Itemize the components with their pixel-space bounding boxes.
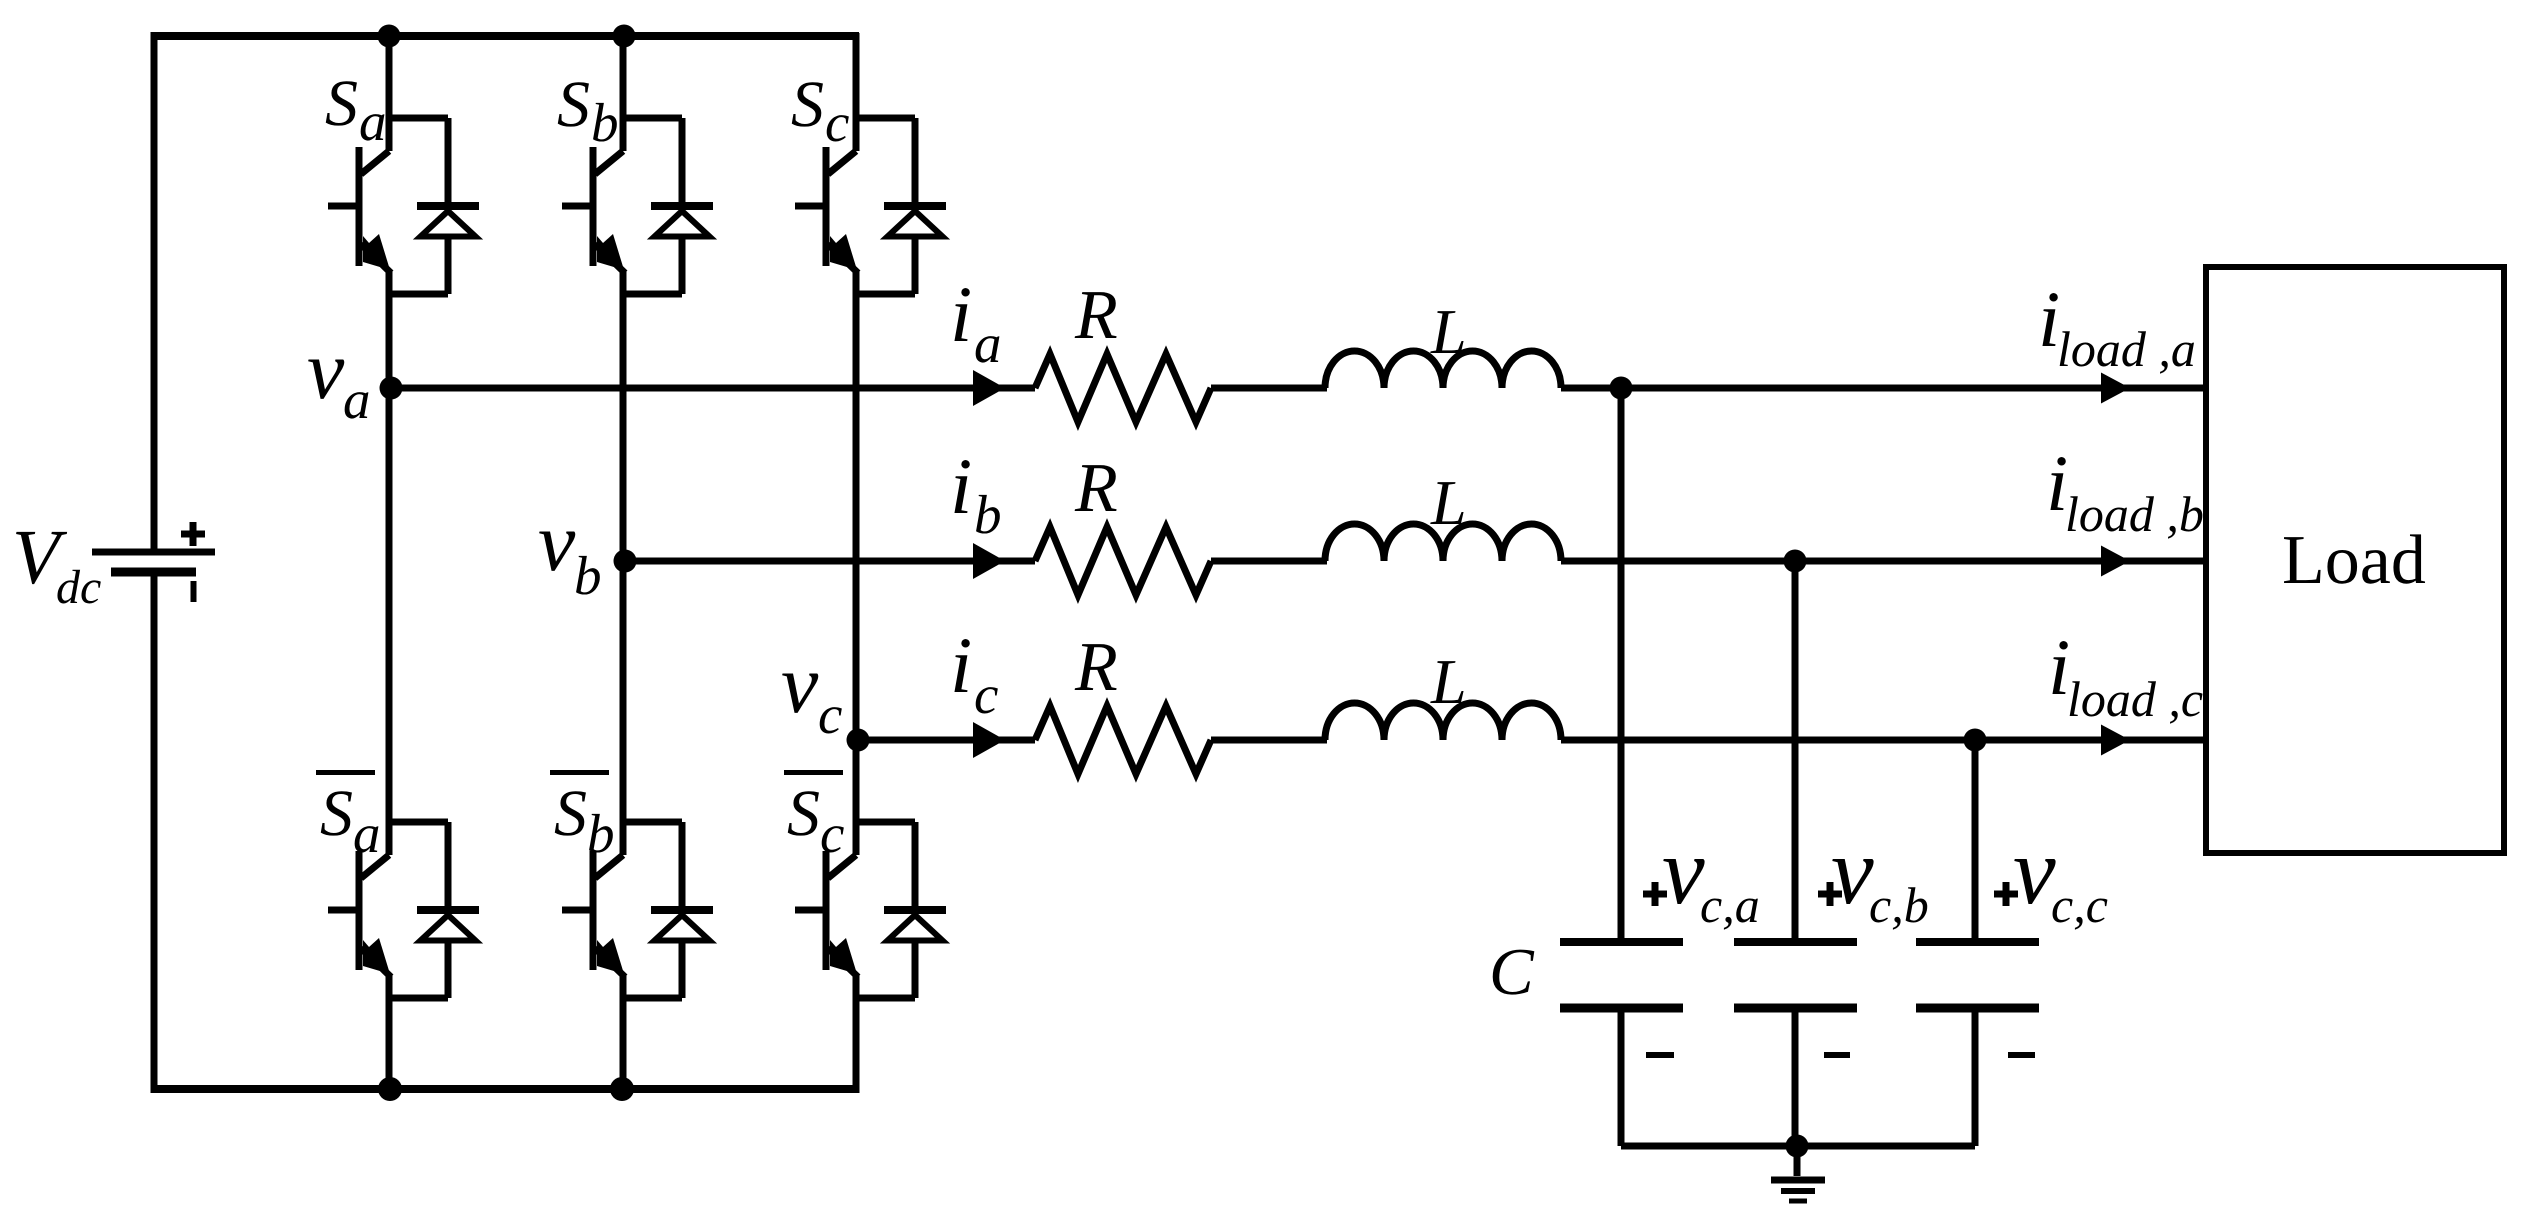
label: capacitor voltage polarity + (phase a) xyxy=(1643,882,1667,906)
wire: R to L (phase a) xyxy=(1211,385,1327,392)
svg-text:c,a: c,a xyxy=(1700,877,1760,933)
svg-text:S: S xyxy=(787,777,820,850)
wire: L to load (phase a) xyxy=(1561,385,2208,392)
inductor L (phase b) xyxy=(1325,524,1561,561)
ground symbol xyxy=(1771,1146,1825,1201)
node: filter tee node phase a xyxy=(1610,377,1633,400)
resistor R (phase b) xyxy=(1035,527,1211,595)
wire: emitter branch of S-bar-c xyxy=(856,995,915,1002)
wire: collector branch of Sb xyxy=(623,115,682,122)
transistor S-bar-c (IGBT) xyxy=(795,851,858,977)
svg-text:v: v xyxy=(781,638,819,731)
arrow: current ic direction xyxy=(973,722,1005,758)
svg-text:R: R xyxy=(1074,277,1118,354)
svg-text:Load: Load xyxy=(2282,522,2426,599)
wire: tee node down to capacitor Ca xyxy=(1618,388,1625,938)
label: switch S-bar-c (complementary) xyxy=(784,770,843,775)
label: switch S-bar-a (complementary) xyxy=(316,770,375,775)
node: vb xyxy=(614,550,637,573)
svg-text:c,c: c,c xyxy=(2051,877,2108,933)
svg-text:a: a xyxy=(974,313,1002,374)
transistor Sc (IGBT) xyxy=(795,147,858,273)
svg-text:R: R xyxy=(1074,629,1118,706)
svg-text:v: v xyxy=(538,496,576,589)
transistor S-bar-b (IGBT) xyxy=(562,851,625,977)
wire: phase c leg, Sc emitter through vc node to lower switch xyxy=(853,271,860,855)
wire: collector branch of S-bar-b xyxy=(623,819,682,826)
wire: positive DC rail (top) xyxy=(151,32,860,40)
wire: phase a leg, Sa emitter through va node to lower switch xyxy=(386,271,393,855)
wire: emitter branch of S-bar-a xyxy=(389,995,448,1002)
wire: collector branch of Sa xyxy=(389,115,448,122)
svg-text:v: v xyxy=(1662,817,1705,924)
arrow: load current i_load,c xyxy=(2101,725,2130,756)
label: capacitor voltage polarity + (phase b) xyxy=(1818,882,1842,906)
svg-text:c,b: c,b xyxy=(1869,877,1929,933)
wire: negative DC rail (bottom) xyxy=(151,1085,860,1093)
svg-text:i: i xyxy=(950,443,972,531)
freewheeling diode of Sa xyxy=(417,118,479,294)
svg-text:v: v xyxy=(1831,817,1874,924)
wire: tee node down to capacitor Cc xyxy=(1972,740,1979,938)
node: top rail / phase a xyxy=(378,25,401,48)
svg-text:load ,a: load ,a xyxy=(2057,321,2196,377)
node: filter tee node phase c xyxy=(1964,729,1987,752)
wire: L to load (phase b) xyxy=(1561,558,2208,565)
battery minus polarity mark xyxy=(191,581,197,602)
node: vc xyxy=(847,729,870,752)
svg-text:b: b xyxy=(587,803,615,864)
wire: left DC rail upper (top rail to battery +) xyxy=(151,32,158,549)
resistor R (phase c) xyxy=(1035,706,1211,774)
svg-text:S: S xyxy=(320,777,353,850)
capacitor C (phase c) xyxy=(1916,942,2039,1008)
resistor R (phase a) xyxy=(1035,354,1211,422)
svg-text:R: R xyxy=(1074,450,1118,527)
svg-text:b: b xyxy=(574,545,602,606)
wire: emitter branch of Sc xyxy=(856,291,915,298)
arrow: load current i_load,a xyxy=(2101,373,2130,404)
svg-text:c: c xyxy=(825,92,849,153)
inductor L (phase a) xyxy=(1325,351,1561,388)
transistor Sa (IGBT) xyxy=(328,147,391,273)
wire: phase b leg, top rail to Sb collector xyxy=(620,33,627,151)
svg-text:L: L xyxy=(1430,646,1467,717)
transistor S-bar-a (IGBT) xyxy=(328,851,391,977)
capacitor C (phase a) xyxy=(1560,942,1683,1008)
wire: phase a leg, lower switch emitter to bottom rail xyxy=(386,975,393,1092)
wire: emitter branch of Sb xyxy=(623,291,682,298)
wire: R to L (phase b) xyxy=(1211,558,1327,565)
node: neutral / ground xyxy=(1786,1135,1809,1158)
svg-text:c: c xyxy=(818,684,842,745)
node: top rail / phase b xyxy=(613,25,636,48)
arrow: current ib direction xyxy=(973,543,1005,579)
svg-text:v: v xyxy=(307,324,345,417)
svg-text:i: i xyxy=(950,271,972,359)
svg-text:S: S xyxy=(325,67,358,140)
label: capacitor voltage polarity + (phase c) xyxy=(1994,882,2018,906)
wire: capacitor neutral bus xyxy=(1621,1143,1975,1150)
wire: emitter branch of Sa xyxy=(389,291,448,298)
svg-text:C: C xyxy=(1489,935,1535,1009)
wire: collector branch of S-bar-c xyxy=(856,819,915,826)
svg-text:L: L xyxy=(1430,296,1467,367)
label: capacitor voltage polarity - (phase c) xyxy=(2008,1052,2035,1058)
wire: phase a leg, top rail to Sa collector xyxy=(386,33,393,151)
svg-text:dc: dc xyxy=(56,561,101,614)
svg-text:v: v xyxy=(2013,817,2056,924)
svg-text:c: c xyxy=(820,803,844,864)
wire: collector branch of Sc xyxy=(856,115,915,122)
node: filter tee node phase b xyxy=(1784,550,1807,573)
svg-text:i: i xyxy=(950,622,972,710)
wire: phase b leg, lower switch emitter to bottom rail xyxy=(620,975,627,1092)
node: bottom rail / phase a xyxy=(378,1077,402,1101)
load block xyxy=(2206,267,2504,853)
freewheeling diode of Sc xyxy=(884,118,946,294)
label: capacitor voltage polarity - (phase a) xyxy=(1646,1052,1674,1058)
wire: phase a output line va to R xyxy=(391,385,1035,392)
transistor Sb (IGBT) xyxy=(562,147,625,273)
wire: phase c output line vc to R xyxy=(858,737,1035,744)
wire: left DC rail lower (battery - to bottom rail) xyxy=(151,576,158,1093)
wire: capacitor Cc to neutral bus xyxy=(1972,1012,1979,1146)
svg-text:load ,b: load ,b xyxy=(2065,486,2204,542)
svg-text:b: b xyxy=(974,484,1002,545)
inductor L (phase c) xyxy=(1325,703,1561,740)
svg-text:load ,c: load ,c xyxy=(2067,671,2203,727)
freewheeling diode of S-bar-c xyxy=(884,822,946,998)
svg-text:c: c xyxy=(974,664,998,725)
svg-text:a: a xyxy=(359,91,387,152)
wire: L to load (phase c) xyxy=(1561,737,2208,744)
freewheeling diode of S-bar-b xyxy=(651,822,713,998)
arrow: current ia direction xyxy=(973,370,1005,406)
capacitor C (phase b) xyxy=(1734,942,1857,1008)
wire: capacitor Cb to neutral bus xyxy=(1792,1012,1799,1146)
svg-text:b: b xyxy=(591,92,619,153)
battery Vdc xyxy=(92,552,215,572)
freewheeling diode of Sb xyxy=(651,118,713,294)
svg-text:a: a xyxy=(353,803,381,864)
label: capacitor voltage polarity - (phase b) xyxy=(1824,1052,1850,1058)
freewheeling diode of S-bar-a xyxy=(417,822,479,998)
arrow: load current i_load,b xyxy=(2101,546,2130,577)
wire: phase b output line vb to R xyxy=(625,558,1035,565)
wire: phase c leg, lower switch emitter to bottom rail xyxy=(853,975,860,1092)
svg-text:S: S xyxy=(557,68,590,141)
wire: collector branch of S-bar-a xyxy=(389,819,448,826)
wire: phase c leg, top rail to Sc collector xyxy=(853,33,860,151)
svg-text:L: L xyxy=(1430,467,1467,538)
battery plus polarity mark xyxy=(181,522,205,546)
node: va xyxy=(380,377,403,400)
node: bottom rail / phase b xyxy=(610,1077,634,1101)
wire: tee node down to capacitor Cb xyxy=(1792,561,1799,938)
wire: emitter branch of S-bar-b xyxy=(623,995,682,1002)
wire: capacitor Ca to neutral bus xyxy=(1618,1012,1625,1146)
svg-text:S: S xyxy=(554,777,587,850)
svg-text:a: a xyxy=(343,369,371,430)
label: switch S-bar-b (complementary) xyxy=(550,770,609,775)
wire: R to L (phase c) xyxy=(1211,737,1327,744)
svg-text:S: S xyxy=(791,68,824,141)
wire: phase b leg, Sb emitter through vb node to lower switch xyxy=(620,271,627,855)
